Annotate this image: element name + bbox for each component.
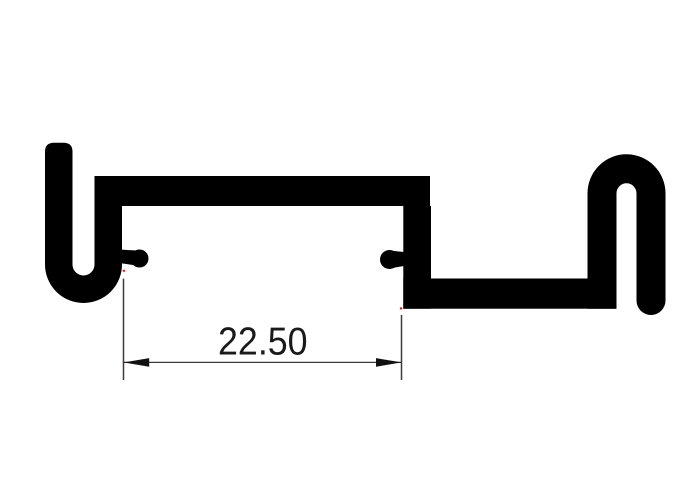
svg-text:22.50: 22.50	[218, 319, 308, 362]
